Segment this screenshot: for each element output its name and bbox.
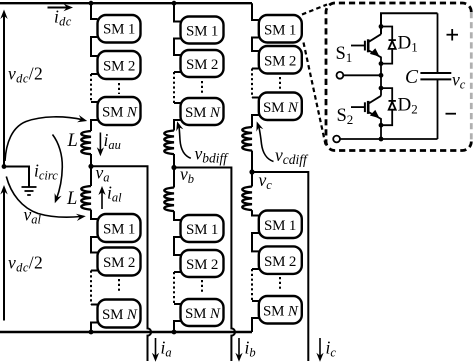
wire to SM bN [174, 102, 181, 104]
wire inductor to node b [173, 154, 175, 168]
wire phase b output [174, 168, 235, 362]
node top rail / phase a [89, 1, 94, 6]
inductor L c lower [242, 187, 252, 211]
terminal bottom [333, 136, 340, 143]
wire inductor to SM c1 lower [252, 210, 259, 215]
svg-text:SM 1: SM 1 [186, 222, 218, 238]
wire SM a2 lower stub [91, 270, 98, 272]
svg-text:SM 1: SM 1 [186, 24, 218, 40]
arrow v_dc/2 upper (left measurement line) [0, 10, 7, 167]
wire rail corner to SM c1 [252, 3, 259, 20]
wire SM aN to inductor [91, 120, 98, 131]
svg-text:SM 2: SM 2 [186, 257, 218, 273]
node v_c [249, 169, 254, 174]
arrow i_b [235, 338, 242, 362]
wire SM cN to inductor [252, 115, 259, 127]
curved arrow midpoint to phase-a upper arm [5, 115, 87, 161]
wire SM a1 to SM a2 lower [91, 237, 98, 253]
SM box c2 lower [259, 246, 302, 274]
arrow i_dc [48, 4, 74, 11]
wire inductor to node a [90, 154, 92, 166]
dashed detail box [326, 3, 471, 151]
SM box b1 [181, 17, 224, 44]
wire SM bN to inductor [174, 120, 181, 131]
dotted leg continuation a lower [90, 271, 92, 305]
wire to SM cN lower [252, 300, 259, 302]
wire rail to SM a1 [91, 3, 98, 19]
SM box cN [259, 93, 302, 121]
wire to SM aN lower [91, 304, 98, 306]
svg-text:SM N: SM N [102, 105, 138, 121]
ground [22, 187, 37, 195]
SM box c1 lower [259, 211, 302, 239]
wire SM aN lower to rail [91, 323, 98, 333]
wire SM bN lower to rail [174, 321, 181, 332]
dotted leg continuation b upper [173, 72, 175, 103]
wire SM c2 stub [252, 68, 259, 70]
SM box c2 [259, 46, 302, 74]
dashed detail box right edge (gray) [470, 12, 473, 142]
terminal midpoint [337, 72, 344, 79]
transistor S2 (IGBT) [351, 96, 381, 125]
dashed zoom line upper from SM c1 [302, 5, 327, 15]
arrow i_c [316, 338, 323, 362]
wire detail top [381, 13, 438, 34]
wire to SM bN lower [174, 303, 181, 305]
svg-text:C: C [405, 67, 419, 88]
dots continuation c upper [279, 77, 281, 89]
wire rail to SM b1 [174, 3, 181, 21]
wire S2 emitter to bottom [380, 125, 382, 139]
svg-text:SM 1: SM 1 [103, 222, 135, 238]
node DC midpoint [2, 164, 7, 169]
wire node a to lower inductor [90, 166, 92, 186]
svg-text:L: L [67, 131, 78, 151]
inductor L c upper [242, 127, 252, 151]
svg-text:SM N: SM N [102, 307, 138, 323]
wire SM b2 stub [174, 71, 181, 73]
dotted leg continuation a upper [90, 74, 92, 102]
wire detail bottom [340, 138, 438, 140]
svg-text:SM 2: SM 2 [186, 57, 218, 73]
dots continuation a upper [118, 83, 120, 94]
node bottom [379, 137, 384, 142]
wire S1 emitter to S2 collector [380, 64, 382, 96]
wire midpoint to ground [4, 167, 29, 187]
node v_b [171, 165, 176, 170]
svg-text:SM 2: SM 2 [103, 59, 135, 75]
SM box a2 lower [98, 248, 141, 276]
svg-text:SM 1: SM 1 [264, 23, 296, 39]
diode D1 branch [381, 27, 392, 64]
inductor L b lower [164, 188, 174, 212]
dashed zoom line lower from SM c1 [304, 43, 326, 145]
node S2 emitter [379, 123, 384, 128]
SM box b2 lower [181, 250, 224, 277]
SM box c1 [259, 15, 302, 43]
dotted leg continuation b lower [173, 272, 175, 304]
label minus [446, 113, 457, 115]
svg-text:SM 1: SM 1 [103, 22, 135, 38]
arrow v_dc/2 lower (left measurement line) [0, 185, 7, 321]
wire inductor to node c [251, 151, 253, 172]
SM box cN lower [259, 296, 302, 324]
wire SM b1 to SM b2 [174, 39, 181, 56]
SM box bN [181, 98, 224, 125]
svg-text:SM N: SM N [263, 304, 299, 320]
node bottom rail / phase a [89, 330, 94, 335]
svg-text:SM 2: SM 2 [103, 255, 135, 271]
svg-text:L: L [66, 189, 77, 209]
wire midpoint [343, 74, 381, 76]
curved arrow i_circ circulation [53, 135, 63, 204]
wire phase a output [91, 166, 151, 361]
svg-text:SM N: SM N [185, 105, 221, 121]
node S2 collector [379, 86, 384, 91]
wire to SM aN [91, 101, 98, 103]
SM box a1 [98, 15, 141, 43]
wire SM c1 to SM c2 lower [252, 233, 259, 251]
svg-text:SM N: SM N [263, 100, 299, 116]
wire SM c2 lower stub [252, 268, 259, 270]
wire to SM cN [252, 97, 259, 99]
wire SM a1 to SM a2 [91, 37, 98, 56]
arrow i_a [152, 338, 159, 362]
curved arrow v_bdiff [176, 121, 191, 158]
wire inductor to SM a1 lower [91, 210, 98, 219]
SM box aN lower [98, 300, 141, 328]
wire bottom DC rail [0, 331, 252, 333]
wire phase c output [252, 172, 308, 361]
node v_a [88, 164, 93, 169]
node S1 collector [379, 24, 384, 29]
wire SM c1 to SM c2 [252, 38, 259, 52]
SM box b1 lower [181, 215, 224, 242]
dotted leg continuation c lower [251, 269, 253, 301]
dots continuation b upper [201, 81, 203, 93]
dotted leg continuation c upper [251, 69, 253, 98]
wire SM cN lower to rail [252, 318, 259, 332]
dots continuation b lower [201, 280, 203, 292]
wire SM a2 stub [91, 73, 98, 75]
node midpoint [379, 73, 384, 78]
SM box b2 [181, 50, 224, 77]
svg-text:SM 2: SM 2 [264, 54, 296, 70]
svg-text:SM 1: SM 1 [264, 218, 296, 234]
curved arrow v_al to phase-a lower arm [6, 177, 86, 222]
arrow i_au [97, 133, 104, 157]
inductor L b upper [164, 131, 174, 155]
SM box a1 lower [98, 214, 141, 242]
label plus [447, 29, 459, 41]
capacitor C [420, 13, 451, 139]
inductor L a upper [81, 131, 91, 154]
diode D2 [389, 101, 396, 110]
wire SM b1 to SM b2 lower [174, 237, 181, 255]
dots continuation a lower [118, 279, 120, 291]
SM box bN lower [181, 299, 224, 326]
arrow i_al [98, 186, 105, 209]
SM box a2 [98, 51, 141, 79]
SM box aN [98, 97, 141, 125]
wire SM b2 lower stub [174, 271, 181, 273]
curved arrow v_cdiff [256, 121, 273, 161]
node S1 emitter [379, 61, 384, 66]
wire top DC rail [0, 2, 252, 4]
svg-text:SM 2: SM 2 [264, 254, 296, 270]
svg-text:SM N: SM N [185, 306, 221, 322]
diode D2 branch [381, 88, 392, 125]
inductor L a lower [81, 186, 91, 210]
node top rail / phase b [172, 1, 177, 6]
wire inductor to SM b1 lower [174, 211, 181, 220]
wire node b to lower inductor [173, 168, 175, 188]
wire node c to lower inductor [251, 172, 253, 187]
dots continuation c lower [279, 277, 281, 289]
diode D1 [389, 40, 396, 49]
node bottom rail / phase b [172, 330, 177, 335]
transistor S1 (IGBT) [351, 34, 381, 63]
